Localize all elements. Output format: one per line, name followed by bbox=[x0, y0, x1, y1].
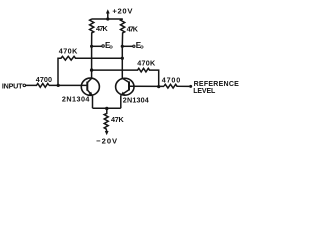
label -20V bbox=[96, 137, 118, 146]
svg-text:47K: 47K bbox=[111, 115, 124, 124]
svg-text:470K: 470K bbox=[137, 59, 156, 68]
power -20V supply arrow bbox=[105, 131, 109, 135]
svg-text:470K: 470K bbox=[59, 47, 78, 56]
node: +20V rail junction bbox=[106, 17, 109, 20]
label 4700 (input) bbox=[36, 75, 52, 84]
label 470K (right) bbox=[137, 59, 156, 68]
svg-text:+20V: +20V bbox=[112, 6, 133, 15]
svg-text:−20V: −20V bbox=[96, 137, 118, 146]
label INPUT bbox=[2, 81, 23, 90]
label Eo (right output) bbox=[136, 41, 144, 51]
label 47K (left load) bbox=[96, 24, 108, 33]
label 2N1304 (right) bbox=[123, 95, 149, 104]
svg-text:INPUT: INPUT bbox=[2, 81, 23, 90]
node: left Eo tap bbox=[90, 45, 93, 48]
svg-text:47K: 47K bbox=[127, 24, 139, 33]
transistor Q1 2N1304 (left) bbox=[81, 78, 99, 96]
wire: input to Q1 base bbox=[49, 84, 87, 86]
svg-text:47K: 47K bbox=[96, 24, 108, 33]
resistor 47K (emitter tail) bbox=[104, 108, 108, 131]
wire: left collector drop bbox=[91, 46, 93, 78]
label 2N1304 (left) bbox=[62, 94, 90, 103]
wire: left emitter drop bbox=[92, 96, 94, 108]
terminal: reference level bbox=[189, 85, 192, 88]
terminal: left Eo bbox=[102, 45, 104, 47]
wire: right collector drop bbox=[121, 46, 123, 78]
wire: common emitter bus bbox=[93, 107, 121, 109]
svg-text:2N1304: 2N1304 bbox=[62, 94, 90, 103]
wire: left Eo stub bbox=[92, 45, 102, 47]
node: reference base / 470K junction bbox=[157, 85, 160, 88]
node: input base / 470K junction bbox=[57, 84, 60, 87]
label 47K (right load) bbox=[127, 24, 139, 33]
resistor 470K (input base to right collector) bbox=[58, 56, 122, 85]
label +20V bbox=[112, 6, 133, 15]
label 470K (left) bbox=[59, 47, 78, 56]
label 47K (tail) bbox=[111, 115, 124, 124]
svg-text:4700: 4700 bbox=[162, 75, 181, 84]
wire: right emitter drop bbox=[120, 95, 122, 108]
transistor Q2 2N1304 (right) bbox=[116, 78, 134, 95]
node: emitter bus junction bbox=[105, 107, 108, 110]
wire: Q2 base to reference network bbox=[129, 85, 164, 87]
label 4700 (reference) bbox=[162, 75, 181, 84]
svg-text:LEVEL: LEVEL bbox=[193, 88, 216, 95]
label REFERENCE bbox=[194, 81, 240, 88]
svg-text:o: o bbox=[109, 45, 113, 51]
node: right Eo tap bbox=[121, 45, 124, 48]
label LEVEL bbox=[193, 88, 216, 95]
svg-text:o: o bbox=[140, 45, 144, 51]
svg-text:4700: 4700 bbox=[36, 75, 52, 84]
resistor 4700 (input series) bbox=[26, 84, 49, 88]
wire: right Eo stub bbox=[122, 45, 133, 47]
svg-text:2N1304: 2N1304 bbox=[123, 95, 149, 104]
terminal: input bbox=[23, 84, 26, 87]
label Eo (left output) bbox=[105, 41, 113, 51]
wire: +20V rail bbox=[92, 18, 123, 20]
resistor 470K (reference base to left collector) bbox=[92, 68, 159, 86]
resistor 47K (right collector load) bbox=[121, 19, 125, 46]
node: right collector cross-coupling junction bbox=[121, 57, 124, 60]
terminal: right Eo bbox=[133, 45, 135, 47]
resistor 47K (left collector load) bbox=[90, 19, 94, 46]
resistor 4700 (reference series) bbox=[164, 84, 189, 88]
node: left collector cross-coupling junction bbox=[90, 68, 93, 71]
power +20V supply arrow bbox=[106, 9, 110, 19]
